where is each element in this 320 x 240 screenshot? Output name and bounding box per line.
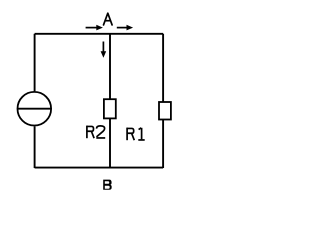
- node A label: [104, 13, 113, 25]
- wire: left branch lower segment (source to bottom rail): [34, 126, 36, 168]
- label R2: [87, 126, 105, 139]
- resistor R1 (box): [159, 102, 171, 120]
- current arrow into node A (left, pointing right): [86, 25, 103, 31]
- wire: bottom rail (node B): [35, 167, 164, 169]
- current source (circle with horizontal bar): [18, 92, 52, 126]
- node B label: [103, 180, 112, 190]
- wire: right branch lower segment (R1 to bottom rail): [162, 120, 164, 169]
- current arrow down middle branch (pointing down): [101, 42, 107, 58]
- wire: left branch upper segment (source to top rail): [34, 34, 36, 91]
- resistor R2 (box): [104, 99, 116, 118]
- wire: right branch upper segment (top rail to R1): [162, 34, 164, 102]
- current arrow out of node A (right, pointing right): [117, 25, 133, 31]
- label R1: [127, 128, 145, 141]
- wire: top rail from left branch to right branch: [35, 33, 164, 35]
- wire: middle branch upper segment (node A junction to R2): [109, 34, 111, 99]
- wire: middle branch lower segment (R2 to bottom rail): [109, 118, 111, 168]
